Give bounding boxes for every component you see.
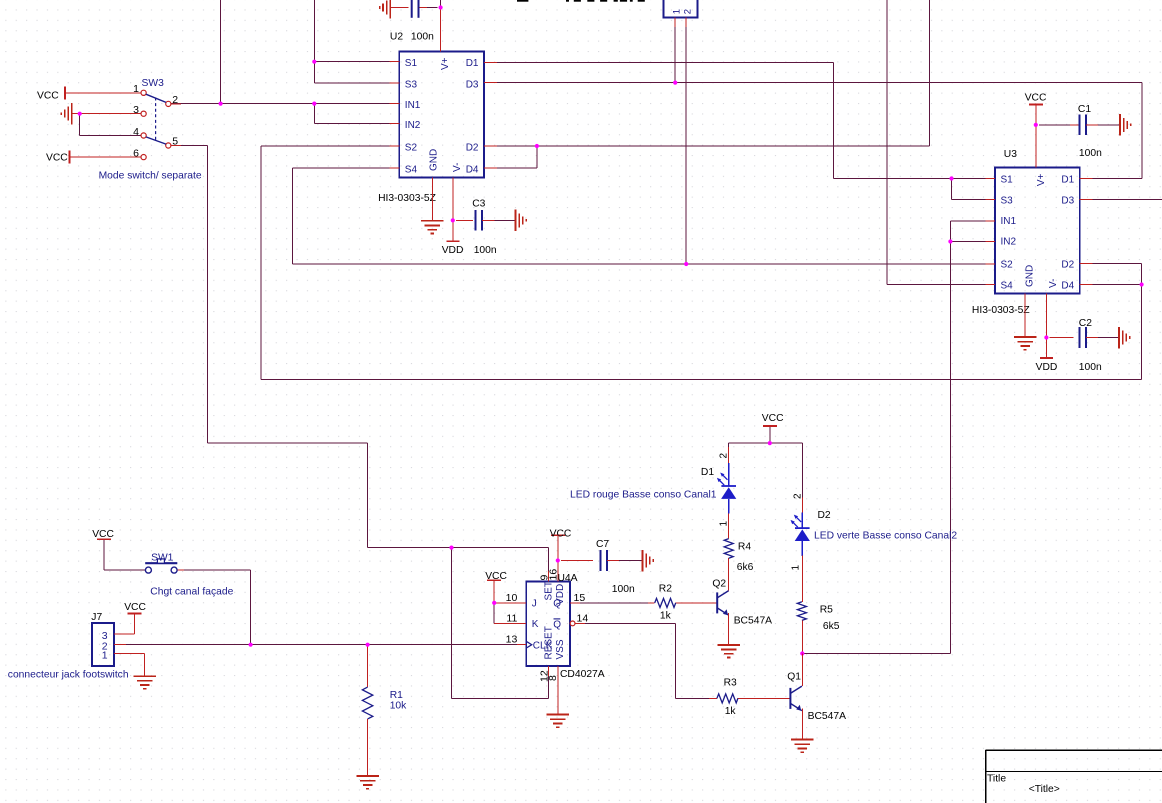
svg-text:1k: 1k [660, 611, 672, 622]
svg-text:100n: 100n [474, 245, 497, 256]
svg-text:D2: D2 [818, 510, 831, 521]
svg-text:Mode switch/ separate: Mode switch/ separate [99, 170, 202, 181]
svg-text:GND: GND [429, 149, 440, 171]
svg-text:4: 4 [133, 126, 139, 138]
svg-text:100n: 100n [1079, 362, 1102, 373]
svg-text:LED verte Basse conso Canal2: LED verte Basse conso Canal2 [814, 531, 957, 542]
U4 top pin stubs [548, 571, 550, 582]
svg-text:K: K [532, 619, 539, 630]
svg-text:LED rouge Basse conso Canal1: LED rouge Basse conso Canal1 [570, 490, 717, 501]
wire U2 D2/D4 tie going up [494, 145, 930, 147]
resistor R2 1k [655, 598, 676, 607]
wire J7 pin2 / CLK line [114, 644, 526, 646]
svg-text:VDD: VDD [442, 245, 464, 256]
connector J7 jack footswitch [92, 623, 114, 666]
Q1 emitter to ground [801, 708, 803, 739]
svg-text:V-: V- [1048, 279, 1059, 288]
VCC feed pin6 [69, 151, 71, 164]
svg-text:1: 1 [790, 565, 801, 571]
resistor R3 1k [717, 694, 738, 703]
svg-text:100n: 100n [612, 584, 635, 595]
svg-text:S2: S2 [405, 143, 418, 154]
svg-text:HI3-0303-5Z: HI3-0303-5Z [378, 193, 436, 204]
svg-text:10: 10 [506, 592, 518, 604]
wire U2 S2 to D2/D4 of U3 (big loop) [261, 145, 389, 147]
svg-text:D1: D1 [466, 58, 479, 69]
wire U2 D1 to U3 S1/S3 [494, 62, 834, 64]
VCC supply for U4 J/K inputs [487, 579, 501, 581]
svg-text:C2: C2 [1079, 318, 1092, 329]
svg-text:VCC: VCC [550, 529, 572, 540]
svg-text:<Title>: <Title> [1029, 784, 1060, 795]
svg-text:HI3-0303-5Z: HI3-0303-5Z [972, 305, 1030, 316]
svg-text:Q: Q [553, 619, 561, 630]
svg-text:J: J [532, 599, 537, 610]
junction J/K vcc [492, 601, 496, 605]
junction R1 top [366, 643, 370, 647]
svg-text:Q: Q [553, 599, 561, 610]
svg-text:SW3: SW3 [142, 78, 165, 89]
junction connector pin1 to D3 net [673, 81, 677, 85]
ground (rotated right) for C2 [1119, 327, 1130, 349]
U2 V- pin to VDD and C3 [452, 178, 454, 242]
capacitor C2 100n [1079, 327, 1085, 348]
svg-text:Q1: Q1 [787, 671, 801, 682]
svg-text:CD4027A: CD4027A [560, 669, 605, 680]
U4 VSS to ground [557, 676, 559, 714]
capacitor (top, cut) plates [412, 0, 419, 18]
junction U2 D2/D4 tie [535, 144, 539, 148]
Q2 emitter to ground [728, 613, 730, 645]
svg-text:D2: D2 [1061, 260, 1074, 271]
ground (rotated left) for top cap [380, 0, 391, 18]
resistor R5 6k5 [797, 602, 806, 621]
svg-text:S3: S3 [1001, 195, 1014, 206]
svg-text:D1: D1 [1061, 174, 1074, 185]
wire U4 Q-bar to R3/Q1 base [575, 622, 676, 624]
flip-flop U4A CD4027A [526, 582, 570, 666]
SW3 levers [146, 94, 166, 102]
wire to U3 S4 from top [886, 0, 888, 285]
analog switch U3 HI3-0303-5Z [995, 168, 1080, 294]
U2 V+ wire and decoupling cap at top (cut off) [440, 0, 442, 8]
svg-text:R4: R4 [738, 542, 751, 553]
junction U3 S1/S3 tie [949, 176, 953, 180]
svg-text:V+: V+ [1036, 173, 1047, 186]
svg-text:connecteur jack footswitch: connecteur jack footswitch [8, 670, 129, 681]
junction at U3 VDD node [1044, 335, 1048, 339]
junction VCC/C7 [556, 558, 560, 562]
U2 GND pin to ground [431, 178, 433, 221]
capacitor C1 100n [1079, 115, 1085, 136]
wire U3 IN1/IN2 down to Q1 collector node [950, 220, 985, 222]
svg-text:1: 1 [719, 521, 730, 527]
svg-text:U3: U3 [1004, 149, 1017, 160]
junction at U2 V+ [439, 5, 443, 9]
svg-text:D3: D3 [466, 79, 479, 90]
U3 GND pin to ground [1024, 294, 1026, 337]
svg-text:BC547A: BC547A [808, 711, 846, 722]
svg-text:C7: C7 [596, 539, 609, 550]
svg-text:D3: D3 [1061, 195, 1074, 206]
VCC supply for U4 (pin16) and C7 [551, 534, 565, 536]
resistor R4 6k6 [724, 539, 733, 559]
junction R5/Q1 collector/IN-net [800, 651, 804, 655]
junction SW3 pin2 net with vertical from top [219, 102, 223, 106]
svg-text:S4: S4 [1001, 280, 1014, 291]
J7 pin1 to ground [114, 653, 144, 655]
svg-text:SW1: SW1 [151, 553, 174, 564]
LED D1 red low-consumption channel 1 [728, 447, 730, 463]
svg-text:D1: D1 [701, 467, 714, 478]
Q2 collector wire to R4 [728, 558, 730, 590]
junction SW3 gnd node [78, 112, 82, 116]
U4 clock input triangle [526, 641, 532, 648]
junction at U2 VDD node [451, 218, 455, 222]
Q1 collector wire [801, 654, 803, 687]
connector pins from top [674, 26, 676, 83]
svg-text:U2: U2 [390, 32, 403, 43]
J7 pin2 stub [114, 644, 126, 646]
wire U2 D3 to U3 D1 [494, 82, 1143, 84]
svg-text:D4: D4 [466, 164, 479, 175]
svg-text:RESET: RESET [544, 626, 555, 659]
svg-text:6: 6 [133, 148, 139, 160]
svg-text:15: 15 [574, 592, 586, 604]
VCC supply for U3 [1029, 104, 1043, 106]
svg-text:13: 13 [506, 634, 518, 646]
junction U3 D2/D4 tie [1140, 282, 1144, 286]
svg-text:U4A: U4A [558, 573, 578, 584]
svg-text:1: 1 [133, 83, 139, 95]
svg-text:2: 2 [792, 493, 803, 499]
power symbol VDD (U3) [1040, 357, 1053, 359]
wire U2 S4 to U3 S2 [293, 167, 390, 169]
junction at U3 VCC node [1034, 123, 1038, 127]
cropped title text at top edge [517, 0, 645, 2]
resistor R1 10k [367, 645, 369, 687]
capacitor C7 100n [601, 550, 607, 571]
ground (rotated right) for C3 [516, 210, 527, 232]
ground (rotated right) for C1 [1120, 114, 1131, 135]
svg-text:VCC: VCC [46, 152, 68, 163]
svg-text:VCC: VCC [124, 602, 146, 613]
junction VCC/LED rails [768, 441, 772, 445]
svg-text:S3: S3 [405, 79, 418, 90]
svg-text:VDD: VDD [1036, 362, 1058, 373]
svg-text:Q2: Q2 [712, 579, 726, 590]
LED D2 green low-consumption channel 2 [801, 497, 803, 512]
capacitor C3 100n [476, 210, 482, 231]
power symbol VDD (U2) [446, 240, 459, 242]
svg-text:IN1: IN1 [1001, 216, 1017, 227]
SW3 output wires [146, 93, 171, 104]
svg-text:IN1: IN1 [405, 100, 421, 111]
J7 pin3 to VCC [114, 633, 134, 635]
title block [986, 750, 1162, 803]
VCC feed pin1 [64, 86, 66, 99]
U4 Q-bar output bubble pin 14 [570, 621, 575, 626]
ground (rotated left) at SW3 [61, 103, 72, 125]
svg-text:S1: S1 [405, 58, 418, 69]
wire net SW3-pin2 to IN1/IN2 of U2 [220, 0, 222, 104]
wire VCC to LED branches [769, 426, 771, 443]
svg-text:S4: S4 [405, 164, 418, 175]
connector (cut off at top) pins 1 2 [664, 0, 698, 18]
svg-text:1: 1 [102, 650, 108, 662]
wire SW1 to CLK line [103, 539, 105, 570]
svg-text:2: 2 [682, 9, 693, 14]
svg-text:R1: R1 [390, 690, 403, 701]
svg-text:J7: J7 [91, 612, 102, 623]
svg-text:VCC: VCC [485, 571, 507, 582]
svg-text:2: 2 [719, 453, 730, 459]
ground (rotated right) for C7 [643, 550, 654, 572]
svg-text:R2: R2 [659, 583, 672, 594]
wire U4 Q (pin15) to R2 to Q2 base [580, 602, 655, 604]
junction SW1 to CLK net [249, 643, 253, 647]
svg-text:1k: 1k [725, 706, 737, 717]
transistor Q1 BC547A [789, 688, 791, 709]
svg-text:100n: 100n [1079, 148, 1102, 159]
svg-text:D4: D4 [1061, 280, 1074, 291]
U4 bottom pin stubs [548, 666, 550, 676]
svg-text:SET: SET [544, 581, 555, 600]
svg-text:6k6: 6k6 [737, 562, 754, 573]
svg-text:S2: S2 [1001, 260, 1014, 271]
svg-text:C3: C3 [472, 199, 485, 210]
svg-text:6k5: 6k5 [823, 621, 840, 632]
svg-text:IN2: IN2 [405, 120, 421, 131]
SW3 pin circles [141, 90, 146, 95]
svg-text:VCC: VCC [37, 91, 59, 102]
svg-text:D2: D2 [466, 143, 479, 154]
analog switch U2 HI3-0303-5Z [399, 51, 484, 177]
svg-text:Title: Title [987, 774, 1006, 785]
svg-text:VCC: VCC [1025, 93, 1047, 104]
svg-text:100n: 100n [411, 32, 434, 43]
VCC above LEDs [763, 425, 777, 427]
svg-text:R3: R3 [724, 678, 737, 689]
svg-text:R5: R5 [820, 604, 833, 615]
wire U3 D3 to right edge [1089, 198, 1162, 200]
junction SET/RESET tie [449, 546, 453, 550]
SW3 gang dashed link [155, 98, 157, 141]
svg-text:1: 1 [671, 9, 682, 14]
wire net S1/S3 of U2 from top [313, 0, 315, 83]
svg-text:11: 11 [506, 612, 517, 624]
wire SW3 pin5 to U4 SET/RESET [171, 145, 208, 147]
svg-text:Chgt canal façade: Chgt canal façade [150, 586, 233, 597]
svg-text:14: 14 [577, 612, 589, 624]
svg-text:10k: 10k [390, 700, 407, 711]
svg-text:BC547A: BC547A [734, 616, 772, 627]
svg-text:VCC: VCC [92, 529, 114, 540]
svg-text:V-: V- [452, 163, 463, 172]
svg-text:3: 3 [133, 104, 139, 116]
svg-text:GND: GND [1024, 265, 1035, 287]
svg-text:VCC: VCC [762, 413, 784, 424]
pushbutton SW1 [97, 538, 111, 540]
transistor Q2 BC547A [716, 592, 718, 613]
svg-text:V+: V+ [440, 57, 451, 70]
svg-text:IN2: IN2 [1001, 236, 1017, 247]
svg-text:VSS: VSS [555, 639, 566, 659]
U3 V- pin to VDD and C2 [1045, 294, 1047, 358]
svg-text:S1: S1 [1001, 174, 1014, 185]
junction connector pin2 to S2-U3 net [684, 262, 688, 266]
svg-text:C1: C1 [1078, 104, 1091, 115]
junction U3 IN1/IN2 tie [948, 239, 952, 243]
